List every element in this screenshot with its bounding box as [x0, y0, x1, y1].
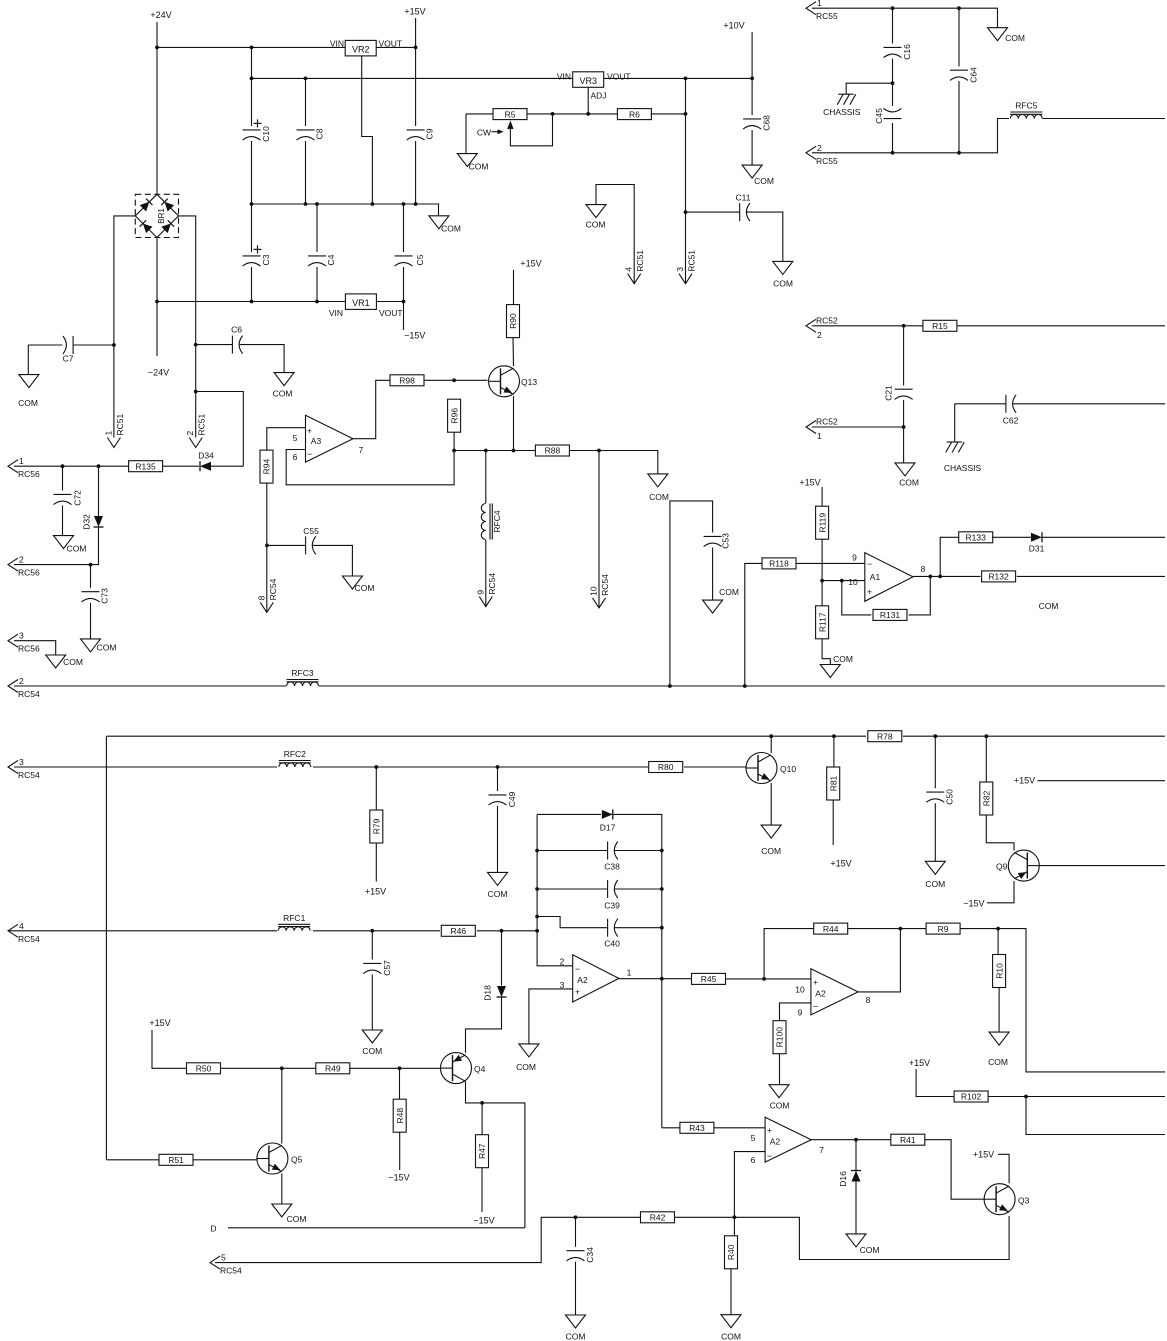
junction [769, 734, 773, 738]
svg-text:VR1: VR1 [352, 298, 370, 308]
svg-text:R43: R43 [689, 1123, 705, 1133]
wire [734, 1152, 765, 1218]
svg-text:RFC1: RFC1 [283, 913, 305, 923]
svg-text:1: 1 [817, 431, 822, 441]
svg-text:−15V: −15V [473, 1216, 494, 1226]
svg-text:RC56: RC56 [18, 568, 40, 578]
wire [909, 576, 931, 615]
junction [535, 929, 539, 933]
wire [751, 32, 753, 115]
wire [152, 1030, 187, 1068]
resistor R46 [441, 925, 475, 936]
svg-text:10: 10 [795, 985, 805, 995]
svg-text:R102: R102 [961, 1092, 982, 1102]
svg-text:R135: R135 [135, 461, 156, 471]
junction [61, 464, 65, 468]
ground COM [648, 474, 669, 502]
wire [350, 1067, 441, 1069]
svg-text:C62: C62 [1003, 416, 1019, 426]
svg-text:COM: COM [586, 220, 606, 230]
svg-text:C55: C55 [303, 526, 319, 536]
svg-text:C50: C50 [945, 789, 955, 805]
wire [90, 565, 92, 588]
svg-text:COM: COM [18, 398, 38, 408]
wire [424, 379, 488, 381]
svg-text:Q5: Q5 [291, 1155, 303, 1165]
wire [958, 81, 960, 153]
ground COM [895, 463, 919, 488]
svg-text:RC55: RC55 [816, 156, 838, 166]
ground COM [703, 587, 739, 613]
junction [512, 449, 516, 453]
svg-text:Q4: Q4 [474, 1064, 486, 1074]
wire [1039, 865, 1165, 867]
resistor R100 [773, 1021, 786, 1054]
connector RC54 pin 9 [475, 573, 497, 607]
capacitor C38 [604, 842, 620, 872]
svg-text:C34: C34 [585, 1247, 595, 1263]
wire [940, 537, 959, 576]
junction [250, 300, 254, 304]
junction [265, 544, 269, 548]
wire [98, 466, 100, 516]
junction [535, 887, 539, 891]
svg-text:R9: R9 [938, 924, 949, 934]
connector RC54 pin 4 [8, 921, 40, 944]
svg-text:−: − [813, 1002, 818, 1012]
capacitor C57 [363, 960, 392, 976]
wire [903, 400, 905, 463]
svg-text:−: − [307, 449, 312, 459]
svg-text:8: 8 [256, 595, 266, 600]
junction [155, 300, 159, 304]
resistor R88 [535, 445, 569, 456]
resistor R78 [868, 731, 902, 742]
svg-text:RC51: RC51 [687, 250, 697, 272]
junction [452, 378, 456, 382]
wire [575, 1262, 577, 1315]
svg-text:1: 1 [19, 456, 24, 466]
ground COM [488, 872, 508, 899]
wire [371, 975, 373, 1031]
wire [662, 1127, 680, 1129]
wire [251, 204, 253, 252]
wire [485, 540, 487, 607]
junction [250, 202, 254, 206]
wire [997, 929, 999, 955]
op-amp A2 [795, 969, 870, 1018]
wire [196, 344, 233, 346]
svg-text:COM: COM [721, 1332, 741, 1341]
svg-text:+: + [575, 987, 580, 997]
ground COM [586, 205, 606, 230]
capacitor C49 [489, 791, 518, 807]
svg-text:RC54: RC54 [220, 1266, 242, 1276]
junction [371, 202, 375, 206]
svg-text:A2: A2 [815, 989, 826, 999]
svg-text:RC54: RC54 [487, 573, 497, 595]
capacitor C73 [82, 588, 110, 604]
resistor R82 [980, 782, 993, 815]
connector RC51 pin 2 [185, 413, 207, 447]
wire [252, 204, 439, 216]
wire [8, 930, 537, 932]
ground COM [457, 154, 488, 172]
svg-text:R40: R40 [726, 1244, 736, 1260]
svg-text:C53: C53 [721, 533, 731, 549]
svg-text:R94: R94 [262, 459, 272, 475]
voltage regulator VR3 [573, 72, 604, 88]
svg-text:COM: COM [773, 279, 793, 289]
resistor R50 [187, 1063, 221, 1074]
connector RC55 pin 1 [806, 0, 838, 21]
svg-text:−: − [767, 1151, 772, 1161]
wire [316, 204, 318, 252]
wire [855, 1182, 857, 1234]
svg-text:COM: COM [488, 889, 508, 899]
svg-text:Q3: Q3 [1018, 1196, 1030, 1206]
junction [496, 765, 500, 769]
wire [375, 843, 377, 882]
svg-text:D: D [210, 1224, 216, 1234]
wire [497, 767, 499, 791]
svg-text:RC54: RC54 [268, 578, 278, 600]
wire [670, 501, 713, 686]
junction [374, 765, 378, 769]
wire [685, 78, 687, 283]
wire [14, 641, 56, 655]
svg-text:RC51: RC51 [115, 413, 125, 435]
wire [730, 1269, 732, 1315]
svg-text:RC56: RC56 [18, 644, 40, 654]
connector RC51 pin 1 [103, 413, 125, 447]
wire [569, 451, 657, 474]
wire [466, 997, 502, 1053]
wire [686, 211, 740, 213]
svg-text:+10V: +10V [723, 21, 744, 31]
svg-text:2: 2 [560, 957, 565, 967]
svg-text:+15V: +15V [520, 259, 541, 269]
bridge rectifier BR1 [135, 194, 178, 237]
wire [733, 1217, 735, 1236]
junction [660, 849, 664, 853]
svg-text:CW: CW [477, 127, 491, 137]
wire [157, 46, 345, 48]
svg-text:2: 2 [185, 431, 195, 436]
junction [484, 449, 488, 453]
svg-text:2: 2 [817, 143, 822, 153]
wire [375, 767, 377, 810]
resistor R98 [390, 375, 424, 386]
junction [398, 1066, 402, 1070]
resistor R48 [393, 1099, 406, 1132]
wire [211, 465, 243, 467]
svg-text:VOUT: VOUT [379, 308, 403, 318]
svg-text:VR3: VR3 [579, 76, 597, 86]
resistor R80 [649, 762, 683, 773]
svg-text:7: 7 [359, 445, 364, 455]
svg-text:R80: R80 [658, 762, 674, 772]
svg-text:6: 6 [293, 452, 298, 462]
svg-text:A2: A2 [770, 1137, 781, 1147]
resistor R47 [476, 1135, 489, 1168]
svg-text:RFC4: RFC4 [492, 510, 502, 532]
wire [403, 204, 405, 252]
connector RC56 pin 3 [8, 631, 40, 654]
svg-text:C21: C21 [884, 385, 894, 401]
wire [454, 450, 535, 452]
connector RC52 pin 2 [806, 315, 838, 340]
capacitor C72 [54, 490, 83, 506]
capacitor C5 [395, 254, 426, 266]
svg-text:COM: COM [97, 643, 117, 653]
wire [913, 575, 980, 577]
wire [106, 735, 1165, 737]
diode D32 [82, 514, 104, 530]
svg-text:COM: COM [67, 544, 87, 554]
wire [846, 83, 892, 94]
wire [90, 603, 92, 639]
svg-text:ADJ: ADJ [591, 91, 607, 101]
wire [240, 345, 284, 373]
svg-text:C68: C68 [762, 115, 772, 131]
resistor R81 [827, 767, 840, 800]
svg-text:RC54: RC54 [600, 574, 610, 596]
wire [1038, 780, 1166, 782]
svg-text:CHASSIS: CHASSIS [823, 107, 861, 117]
svg-text:4: 4 [624, 267, 634, 272]
svg-text:COM: COM [273, 389, 293, 399]
svg-text:2: 2 [817, 330, 822, 340]
junction [899, 927, 903, 931]
svg-text:R88: R88 [545, 446, 561, 456]
wire [796, 562, 865, 564]
svg-text:3: 3 [19, 631, 24, 641]
junction [480, 1101, 484, 1105]
capacitor C9 [407, 128, 435, 140]
wire [513, 396, 515, 451]
resistor R133 [959, 532, 993, 543]
wire [822, 639, 830, 665]
svg-text:5: 5 [293, 433, 298, 443]
ground COM [46, 655, 83, 668]
svg-text:C38: C38 [604, 862, 620, 872]
junction [1024, 1095, 1028, 1099]
wire [196, 392, 244, 467]
wire [193, 1159, 257, 1161]
ground COM [81, 639, 117, 653]
connector RC54 pin 5 [210, 1253, 242, 1276]
connector RC54 pin 2 [8, 676, 40, 699]
connector RC54 pin 3 [8, 757, 40, 780]
svg-text:VOUT: VOUT [607, 72, 631, 82]
junction [500, 929, 504, 933]
wire [106, 1159, 159, 1161]
svg-text:+15V: +15V [365, 887, 386, 897]
svg-text:COM: COM [925, 879, 945, 889]
junction [660, 926, 664, 930]
wire [512, 338, 515, 367]
connector RC56 pin 1 [8, 456, 40, 479]
wire [1042, 536, 1165, 538]
capacitor C6 [231, 325, 243, 354]
wire [28, 344, 62, 346]
svg-text:COM: COM [833, 654, 853, 664]
inductor RFC1 [278, 913, 310, 931]
junction [933, 734, 937, 738]
svg-text:R48: R48 [395, 1108, 405, 1124]
svg-text:−: − [575, 964, 580, 974]
transistor Q4 [441, 1053, 486, 1084]
junction [660, 977, 664, 981]
svg-text:C10: C10 [261, 126, 271, 142]
wire [598, 451, 600, 608]
svg-text:RC55: RC55 [816, 11, 838, 21]
wire [252, 77, 753, 79]
ground COM [742, 165, 774, 186]
junction [957, 6, 961, 10]
svg-text:+15V: +15V [830, 859, 851, 869]
wire [770, 736, 772, 753]
capacitor C34 [567, 1247, 596, 1263]
svg-text:COM: COM [1005, 33, 1025, 43]
svg-text:+15V: +15V [799, 478, 820, 488]
svg-text:C39: C39 [604, 901, 620, 911]
wire [812, 426, 904, 428]
wire [821, 487, 823, 506]
resistor R42 [641, 1212, 675, 1223]
svg-text:C9: C9 [425, 128, 435, 139]
svg-text:R118: R118 [769, 559, 789, 569]
wire [27, 345, 29, 375]
svg-text:9: 9 [852, 553, 857, 563]
transistor Q5 [257, 1143, 303, 1174]
wire [466, 1082, 525, 1228]
junction [89, 563, 93, 567]
wire [892, 59, 894, 153]
inductor RFC4 [481, 504, 502, 540]
svg-text:+24V: +24V [150, 10, 171, 20]
svg-text:RC54: RC54 [18, 689, 40, 699]
diode D17 [600, 809, 616, 832]
wire [714, 1127, 765, 1129]
svg-text:R44: R44 [823, 924, 839, 934]
junction [402, 202, 406, 206]
wire [453, 432, 455, 450]
svg-text:R45: R45 [701, 974, 717, 984]
wire [537, 850, 607, 852]
wire [14, 766, 747, 768]
resistor R49 [316, 1063, 350, 1074]
capacitor C40 [604, 919, 620, 949]
wire [228, 1227, 525, 1229]
svg-text:A1: A1 [870, 572, 881, 582]
svg-text:R117: R117 [817, 612, 827, 632]
resistor R40 [725, 1236, 738, 1269]
junction [535, 849, 539, 853]
wire [221, 1067, 316, 1069]
svg-text:R10: R10 [994, 963, 1004, 979]
ground COM [721, 1315, 741, 1341]
wire [833, 736, 835, 767]
wire [615, 850, 662, 852]
wire [62, 466, 64, 490]
wire [537, 814, 573, 965]
wire [712, 548, 714, 601]
capacitor C7 [63, 336, 74, 364]
svg-text:C49: C49 [507, 791, 517, 807]
wire [537, 917, 607, 928]
capacitor C21 [884, 385, 913, 401]
junction [902, 324, 906, 328]
svg-text:COM: COM [649, 492, 669, 502]
svg-text:COM: COM [516, 1062, 536, 1072]
wire [747, 212, 783, 261]
wire [855, 1140, 857, 1170]
svg-text:+15V: +15V [149, 1018, 170, 1028]
junction [684, 112, 688, 116]
svg-text:+: + [767, 1125, 772, 1135]
svg-text:COM: COM [860, 1245, 880, 1255]
wire [179, 216, 196, 438]
junction [551, 112, 555, 116]
svg-text:−15V: −15V [404, 331, 425, 341]
wire [675, 1216, 1010, 1260]
svg-text:R81: R81 [828, 775, 838, 791]
diode D16 [838, 1171, 861, 1187]
svg-text:C45: C45 [874, 108, 884, 124]
junction [840, 579, 844, 583]
wire [985, 736, 987, 781]
svg-text:R78: R78 [877, 731, 893, 741]
ground COM [761, 825, 781, 856]
junction [750, 77, 754, 81]
capacitor C16 [884, 44, 913, 60]
svg-text:+15V: +15V [973, 1150, 994, 1160]
svg-text:+15V: +15V [404, 7, 425, 17]
ground COM [925, 861, 945, 889]
wire [1013, 403, 1165, 405]
wire [215, 1217, 641, 1262]
svg-text:R6: R6 [629, 109, 640, 119]
capacitor C11 [736, 193, 751, 222]
svg-text:R90: R90 [508, 313, 518, 329]
wire [281, 1068, 283, 1143]
junction [304, 77, 308, 81]
voltage regulator VR1 [345, 294, 376, 310]
svg-text:C72: C72 [73, 490, 83, 506]
svg-text:Q10: Q10 [780, 764, 796, 774]
wire [267, 544, 306, 546]
transistor Q10 [746, 753, 796, 784]
svg-text:R51: R51 [168, 1155, 184, 1165]
svg-text:8: 8 [921, 564, 926, 574]
svg-text:10: 10 [848, 577, 858, 587]
svg-text:RC54: RC54 [18, 770, 40, 780]
svg-text:RFC3: RFC3 [291, 668, 313, 678]
capacitor C4 [308, 254, 336, 266]
svg-text:RFC5: RFC5 [1015, 101, 1037, 111]
wire [14, 685, 1165, 687]
svg-text:RC54: RC54 [18, 934, 40, 944]
op-amp A2 [751, 1117, 825, 1165]
transistor Q13 [489, 366, 538, 397]
svg-text:COM: COM [754, 176, 774, 186]
junction [414, 46, 418, 50]
svg-text:3: 3 [19, 757, 24, 767]
ground CHASSIS [944, 442, 982, 473]
svg-text:RC51: RC51 [197, 413, 207, 435]
